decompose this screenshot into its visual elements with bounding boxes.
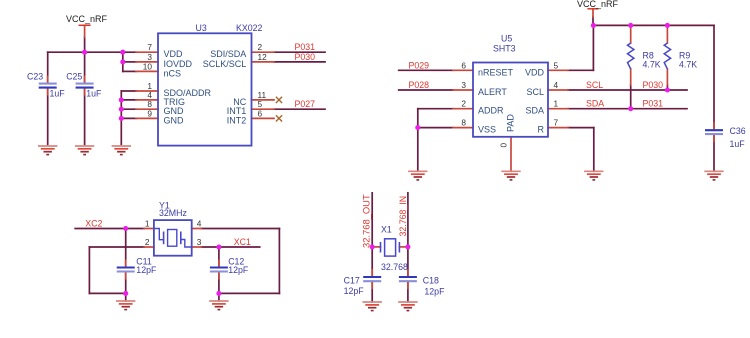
svg-text:C17: C17 — [344, 275, 360, 285]
svg-text:SDA: SDA — [525, 106, 544, 116]
svg-text:IOVDD: IOVDD — [164, 59, 193, 69]
svg-text:SCL: SCL — [526, 87, 544, 97]
svg-text:XC1: XC1 — [234, 237, 251, 247]
svg-text:C25: C25 — [66, 71, 82, 81]
svg-text:32.768: 32.768 — [381, 262, 408, 272]
svg-text:3: 3 — [461, 80, 466, 90]
svg-text:VDD: VDD — [525, 67, 545, 77]
svg-text:2: 2 — [258, 42, 263, 52]
svg-text:VCC_nRF: VCC_nRF — [66, 14, 108, 24]
svg-text:10: 10 — [143, 61, 153, 71]
svg-text:3: 3 — [147, 52, 152, 62]
svg-text:C23: C23 — [27, 71, 43, 81]
svg-text:PAD: PAD — [506, 114, 516, 132]
svg-text:GND: GND — [164, 115, 185, 125]
svg-text:2: 2 — [145, 237, 150, 247]
svg-text:SDA: SDA — [586, 99, 604, 109]
svg-text:0: 0 — [499, 143, 509, 148]
svg-text:P028: P028 — [409, 80, 430, 90]
svg-text:6: 6 — [258, 108, 263, 118]
svg-text:4.7K: 4.7K — [679, 60, 697, 70]
svg-text:ALERT: ALERT — [478, 87, 507, 97]
svg-text:32MHz: 32MHz — [159, 208, 187, 218]
svg-text:SHT3: SHT3 — [493, 44, 516, 54]
svg-text:SCL: SCL — [586, 80, 603, 90]
svg-text:12pF: 12pF — [136, 265, 157, 275]
svg-text:C18: C18 — [423, 275, 439, 285]
svg-text:1: 1 — [145, 219, 150, 229]
svg-text:nRESET: nRESET — [478, 67, 514, 77]
svg-text:32.768_OUT: 32.768_OUT — [361, 194, 372, 248]
svg-text:1uF: 1uF — [730, 139, 746, 149]
svg-text:P031: P031 — [643, 99, 664, 109]
svg-text:KX022: KX022 — [236, 23, 263, 33]
svg-text:R: R — [538, 125, 545, 135]
svg-text:4: 4 — [197, 219, 202, 229]
svg-text:1: 1 — [554, 99, 559, 109]
svg-text:12pF: 12pF — [424, 287, 445, 297]
svg-text:SCLK/SCL: SCLK/SCL — [203, 59, 247, 69]
svg-text:U5: U5 — [501, 34, 512, 44]
svg-text:ADDR: ADDR — [478, 106, 504, 116]
svg-text:nCS: nCS — [164, 68, 182, 78]
svg-text:6: 6 — [461, 60, 466, 70]
svg-text:P027: P027 — [295, 99, 316, 109]
svg-text:8: 8 — [461, 118, 466, 128]
svg-text:12: 12 — [258, 52, 268, 62]
svg-text:VCC_nRF: VCC_nRF — [577, 0, 619, 9]
svg-text:7: 7 — [147, 42, 152, 52]
svg-text:INT2: INT2 — [227, 115, 247, 125]
svg-text:32.768_IN: 32.768_IN — [398, 196, 408, 237]
svg-text:C36: C36 — [730, 126, 746, 136]
svg-text:P031: P031 — [295, 42, 316, 52]
svg-text:SDI/SDA: SDI/SDA — [210, 49, 246, 59]
svg-text:5: 5 — [554, 60, 559, 70]
svg-text:XC2: XC2 — [85, 219, 102, 229]
svg-text:12pF: 12pF — [344, 286, 365, 296]
svg-text:P030: P030 — [295, 52, 316, 62]
svg-text:P030: P030 — [643, 80, 664, 90]
svg-text:P029: P029 — [409, 60, 430, 70]
svg-text:4.7K: 4.7K — [643, 60, 661, 70]
svg-text:3: 3 — [197, 237, 202, 247]
svg-text:9: 9 — [147, 108, 152, 118]
svg-text:1uF: 1uF — [50, 89, 66, 99]
svg-text:4: 4 — [554, 80, 559, 90]
svg-text:VSS: VSS — [478, 125, 496, 135]
svg-text:X1: X1 — [381, 225, 392, 235]
svg-text:U3: U3 — [196, 23, 207, 33]
svg-text:VDD: VDD — [164, 49, 184, 59]
svg-text:7: 7 — [554, 118, 559, 128]
svg-text:12pF: 12pF — [228, 265, 249, 275]
svg-text:2: 2 — [461, 99, 466, 109]
svg-text:1uF: 1uF — [86, 89, 102, 99]
